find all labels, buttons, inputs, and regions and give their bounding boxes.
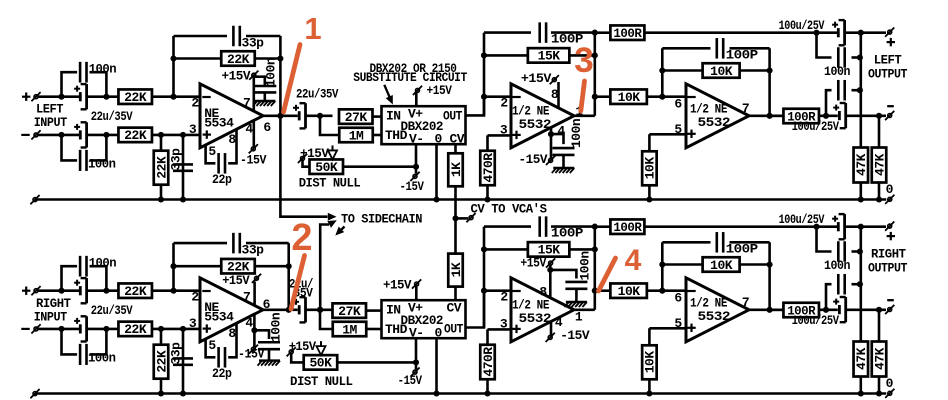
svg-text:DIST NULL: DIST NULL bbox=[290, 374, 353, 389]
svg-text:100n: 100n bbox=[89, 62, 117, 77]
svg-text:SUBSTITUTE CIRCUIT: SUBSTITUTE CIRCUIT bbox=[353, 70, 467, 85]
svg-text:47K: 47K bbox=[872, 153, 887, 176]
svg-text:22u/35V: 22u/35V bbox=[296, 87, 339, 102]
svg-text:100n: 100n bbox=[824, 258, 851, 273]
svg-text:+15V: +15V bbox=[222, 273, 250, 288]
svg-text:100n: 100n bbox=[89, 256, 117, 271]
svg-text:10K: 10K bbox=[710, 64, 733, 79]
svg-text:22p: 22p bbox=[212, 366, 232, 381]
svg-text:5532: 5532 bbox=[698, 115, 731, 130]
svg-text:100R: 100R bbox=[613, 26, 642, 41]
svg-text:+15V: +15V bbox=[383, 278, 412, 293]
svg-text:1M: 1M bbox=[342, 322, 357, 337]
svg-text:6: 6 bbox=[674, 97, 682, 112]
svg-text:LEFT: LEFT bbox=[874, 53, 902, 68]
svg-text:22K: 22K bbox=[124, 90, 147, 105]
svg-text:100P: 100P bbox=[726, 47, 759, 62]
svg-text:100P: 100P bbox=[726, 241, 759, 256]
svg-text:8: 8 bbox=[228, 326, 236, 341]
svg-text:-15V: -15V bbox=[560, 328, 590, 343]
svg-text:TO SIDECHAIN: TO SIDECHAIN bbox=[341, 211, 422, 226]
svg-text:10K: 10K bbox=[643, 351, 658, 374]
svg-text:3: 3 bbox=[574, 41, 593, 80]
svg-text:47K: 47K bbox=[872, 347, 887, 370]
svg-text:0: 0 bbox=[886, 376, 894, 391]
svg-text:50K: 50K bbox=[309, 356, 332, 371]
svg-text:470R: 470R bbox=[481, 153, 496, 183]
svg-text:4: 4 bbox=[245, 121, 253, 136]
svg-text:100n: 100n bbox=[264, 57, 279, 87]
svg-text:100u/25V: 100u/25V bbox=[792, 313, 840, 328]
svg-text:-15V: -15V bbox=[519, 152, 548, 167]
svg-text:7: 7 bbox=[742, 295, 749, 310]
svg-text:100n: 100n bbox=[269, 312, 284, 342]
svg-text:+15V: +15V bbox=[521, 71, 552, 86]
svg-text:5: 5 bbox=[208, 144, 216, 159]
svg-text:22K: 22K bbox=[154, 156, 169, 179]
svg-text:8: 8 bbox=[539, 285, 547, 300]
svg-text:47K: 47K bbox=[854, 153, 869, 176]
svg-text:27K: 27K bbox=[345, 110, 368, 125]
svg-text:CV: CV bbox=[447, 300, 462, 315]
svg-text:100R: 100R bbox=[613, 220, 642, 235]
svg-text:1K: 1K bbox=[449, 162, 464, 177]
svg-text:10K: 10K bbox=[618, 90, 641, 105]
svg-text:0: 0 bbox=[886, 182, 894, 197]
svg-text:100n: 100n bbox=[569, 118, 584, 148]
svg-text:DIST NULL: DIST NULL bbox=[299, 175, 361, 190]
svg-text:OUTPUT: OUTPUT bbox=[868, 261, 908, 276]
svg-text:100n: 100n bbox=[88, 351, 116, 366]
svg-text:100u/25V: 100u/25V bbox=[779, 18, 825, 33]
svg-text:+15V: +15V bbox=[300, 146, 329, 161]
svg-text:1M: 1M bbox=[349, 128, 364, 143]
svg-text:5: 5 bbox=[674, 316, 682, 331]
svg-text:1/2 NE: 1/2 NE bbox=[512, 103, 550, 118]
svg-text:6: 6 bbox=[674, 291, 682, 306]
svg-text:IN: IN bbox=[386, 302, 401, 317]
svg-text:33p: 33p bbox=[169, 342, 184, 365]
svg-text:22u/35V: 22u/35V bbox=[91, 303, 133, 318]
svg-text:3: 3 bbox=[189, 122, 197, 137]
svg-text:4: 4 bbox=[625, 244, 642, 277]
svg-text:7: 7 bbox=[243, 96, 250, 111]
svg-text:33p: 33p bbox=[169, 148, 184, 171]
svg-text:22p: 22p bbox=[212, 172, 232, 187]
svg-text:10K: 10K bbox=[710, 258, 733, 273]
svg-text:22K: 22K bbox=[124, 284, 147, 299]
svg-text:7: 7 bbox=[243, 290, 250, 305]
svg-text:1: 1 bbox=[575, 310, 583, 325]
svg-text:10K: 10K bbox=[618, 284, 641, 299]
svg-text:8: 8 bbox=[228, 132, 236, 147]
svg-text:470R: 470R bbox=[481, 347, 496, 377]
svg-text:THD: THD bbox=[385, 322, 408, 337]
svg-text:CV TO VCA'S: CV TO VCA'S bbox=[471, 202, 548, 217]
svg-text:CV: CV bbox=[450, 132, 465, 147]
svg-text:47K: 47K bbox=[854, 347, 869, 370]
svg-text:-15V: -15V bbox=[238, 346, 265, 361]
svg-text:3: 3 bbox=[189, 316, 197, 331]
svg-text:100u/25V: 100u/25V bbox=[779, 212, 825, 227]
svg-text:5534: 5534 bbox=[204, 116, 234, 131]
svg-text:5: 5 bbox=[674, 122, 682, 137]
svg-text:-15V: -15V bbox=[400, 179, 425, 194]
svg-text:OUT: OUT bbox=[443, 108, 463, 123]
svg-text:INPUT: INPUT bbox=[34, 310, 68, 325]
svg-text:+15V: +15V bbox=[520, 256, 546, 271]
svg-text:-15V: -15V bbox=[398, 373, 423, 388]
svg-text:OUT: OUT bbox=[444, 321, 464, 336]
svg-text:5534: 5534 bbox=[204, 310, 234, 325]
svg-text:INPUT: INPUT bbox=[34, 115, 68, 130]
svg-text:22K: 22K bbox=[154, 350, 169, 373]
svg-text:33p: 33p bbox=[242, 243, 265, 258]
svg-text:50K: 50K bbox=[315, 160, 338, 175]
svg-text:22u/35V: 22u/35V bbox=[91, 109, 133, 124]
svg-text:1/2 NE: 1/2 NE bbox=[512, 297, 550, 312]
svg-text:IN: IN bbox=[386, 108, 401, 123]
svg-text:15K: 15K bbox=[538, 49, 561, 64]
svg-text:2: 2 bbox=[191, 96, 199, 111]
svg-text:100P: 100P bbox=[551, 226, 584, 241]
svg-text:RIGHT: RIGHT bbox=[871, 247, 906, 262]
svg-text:THD: THD bbox=[385, 128, 408, 143]
svg-text:100n: 100n bbox=[88, 157, 116, 172]
svg-text:22K: 22K bbox=[124, 322, 147, 337]
svg-text:5532: 5532 bbox=[698, 309, 731, 324]
svg-text:1: 1 bbox=[304, 11, 321, 46]
svg-text:33p: 33p bbox=[242, 36, 265, 51]
svg-text:100n: 100n bbox=[824, 64, 851, 79]
svg-text:27K: 27K bbox=[338, 304, 361, 319]
svg-text:100n: 100n bbox=[578, 251, 593, 281]
svg-text:2: 2 bbox=[291, 217, 312, 259]
svg-text:5: 5 bbox=[208, 338, 216, 353]
svg-text:4: 4 bbox=[245, 315, 253, 330]
svg-text:2: 2 bbox=[191, 290, 199, 305]
svg-text:10K: 10K bbox=[643, 157, 658, 180]
svg-text:OUTPUT: OUTPUT bbox=[868, 67, 908, 82]
svg-text:100u/25V: 100u/25V bbox=[792, 119, 840, 134]
svg-text:-15V: -15V bbox=[240, 152, 267, 167]
svg-text:22K: 22K bbox=[124, 128, 147, 143]
svg-text:7: 7 bbox=[742, 101, 749, 116]
svg-text:5532: 5532 bbox=[519, 117, 552, 132]
svg-text:+15V: +15V bbox=[222, 69, 251, 84]
svg-text:6: 6 bbox=[263, 120, 271, 135]
svg-text:5532: 5532 bbox=[519, 311, 552, 326]
svg-text:1K: 1K bbox=[449, 262, 464, 277]
svg-text:+15V: +15V bbox=[289, 339, 317, 354]
svg-text:22K: 22K bbox=[227, 52, 250, 67]
